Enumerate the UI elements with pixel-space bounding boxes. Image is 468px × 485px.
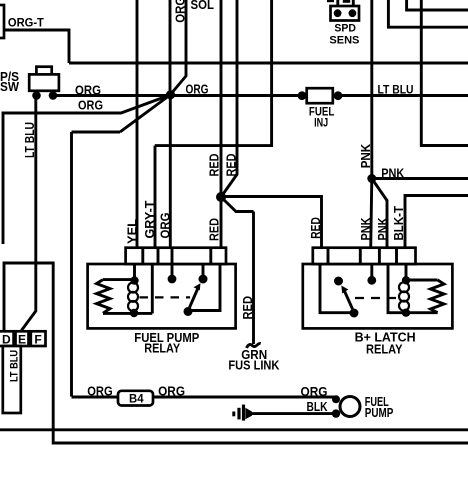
svg-text:ORG: ORG xyxy=(158,384,185,398)
svg-text:PNK: PNK xyxy=(359,144,373,169)
svg-text:ORG: ORG xyxy=(87,384,113,398)
svg-text:SW: SW xyxy=(0,80,19,94)
svg-text:INJ: INJ xyxy=(314,115,328,129)
svg-text:SPD: SPD xyxy=(334,22,356,34)
svg-text:RED: RED xyxy=(207,218,221,241)
svg-text:RED: RED xyxy=(241,296,255,320)
svg-text:ORG: ORG xyxy=(159,213,173,239)
svg-text:B4: B4 xyxy=(129,394,144,406)
svg-text:BLK: BLK xyxy=(307,400,328,414)
svg-text:PNK: PNK xyxy=(359,218,373,241)
svg-text:SOL: SOL xyxy=(191,0,215,12)
svg-text:FUS LINK: FUS LINK xyxy=(228,357,280,372)
svg-text:RELAY: RELAY xyxy=(144,340,180,355)
svg-text:LT BLU: LT BLU xyxy=(9,350,21,382)
svg-text:PNK: PNK xyxy=(376,218,390,241)
svg-text:PNK: PNK xyxy=(381,166,404,180)
svg-text:ORG: ORG xyxy=(174,0,188,23)
svg-text:F: F xyxy=(34,333,41,347)
svg-text:YEL: YEL xyxy=(126,219,140,244)
svg-text:E: E xyxy=(18,333,26,347)
svg-text:ORG: ORG xyxy=(301,385,328,399)
svg-text:ORG: ORG xyxy=(186,83,209,97)
svg-text:BLK-T: BLK-T xyxy=(392,206,406,241)
svg-text:D: D xyxy=(2,333,11,347)
svg-text:ORG: ORG xyxy=(75,83,101,97)
svg-text:SENS: SENS xyxy=(329,34,359,46)
svg-text:ORG: ORG xyxy=(78,99,103,113)
svg-text:LT BLU: LT BLU xyxy=(378,83,414,97)
svg-text:RED: RED xyxy=(309,217,323,239)
svg-text:RED: RED xyxy=(225,154,239,177)
svg-text:RELAY: RELAY xyxy=(366,342,403,357)
svg-text:RED: RED xyxy=(207,154,221,177)
svg-text:LT BLU: LT BLU xyxy=(23,122,37,158)
svg-text:GRY-T: GRY-T xyxy=(143,200,157,238)
svg-text:PUMP: PUMP xyxy=(365,406,394,420)
svg-text:ORG-T: ORG-T xyxy=(8,16,45,30)
